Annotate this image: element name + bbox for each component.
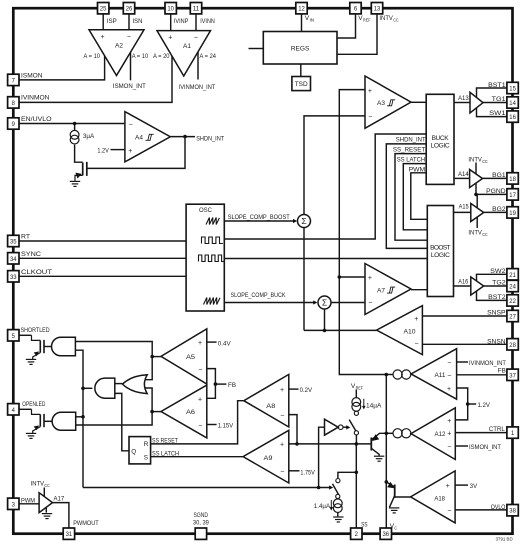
svg-text:−: − [447, 373, 451, 380]
ground 1.4uA [333, 517, 343, 522]
wire switch1 to SS node [355, 435, 357, 444]
transistor Q1 emitter to VC [371, 433, 386, 440]
pin 21 (right) [507, 269, 518, 280]
wire SHORTLED pin5 to mosfet [19, 334, 32, 336]
comparator A4 EN/UVLO [125, 112, 170, 162]
svg-text:A10: A10 [404, 328, 416, 335]
svg-text:ISMON_INT: ISMON_INT [113, 83, 146, 90]
wire ISP pin25 to A2 + [102, 14, 104, 31]
svg-text:SNSN: SNSN [487, 339, 506, 346]
op-amp A1 input current sense [157, 31, 211, 76]
svg-text:CC: CC [44, 483, 50, 488]
amp A10 current sense [377, 306, 423, 355]
svg-text:INTV: INTV [31, 480, 45, 487]
wire A14 bottom to PGND [475, 183, 477, 194]
svg-text:16: 16 [509, 114, 516, 121]
block BUCK LOGIC [426, 94, 454, 184]
wire A5 + to 0.4V [207, 341, 217, 343]
node junction FB bracket [214, 382, 218, 386]
wire CLKOUT pin33 to OSC [19, 275, 186, 277]
wire BUCK to A14 [454, 177, 470, 179]
switch1 blade [349, 420, 356, 431]
wire A13 TG1 out [483, 102, 507, 104]
wire buck clock OSC to BUCK LOGIC [224, 134, 426, 239]
wire A4 output SHDN_INT [170, 136, 195, 138]
block OSC [186, 204, 224, 311]
summer sigma2 [318, 296, 331, 309]
label INTVCC top [379, 15, 399, 23]
arrowhead slope_comp_boost [293, 219, 297, 223]
svg-text:5: 5 [12, 333, 16, 340]
wire A14 BG1 out [483, 177, 507, 179]
svg-text:TG2: TG2 [492, 280, 506, 287]
wire and1 out to mosfet gate [44, 346, 52, 348]
wire and3 in1 [76, 416, 83, 418]
wire A6 out rail [76, 388, 152, 425]
pin 7 (left) [8, 74, 19, 85]
wire PGND pin17 [476, 193, 507, 195]
wire sigma2 stub down [324, 309, 326, 331]
svg-text:A5: A5 [186, 354, 195, 361]
svg-text:SLOPE_COMP_BOOST: SLOPE_COMP_BOOST [228, 214, 290, 221]
svg-text:Σ: Σ [301, 216, 306, 226]
ground A17 [42, 514, 52, 519]
comparator A9 [243, 430, 289, 483]
label VREF [358, 15, 370, 23]
switch1 contact top [354, 411, 358, 415]
svg-text:11: 11 [193, 6, 200, 13]
svg-text:31: 31 [66, 531, 73, 538]
svg-text:LOGIC: LOGIC [431, 142, 450, 149]
svg-text:15: 15 [509, 86, 516, 93]
svg-text:OPENLED: OPENLED [22, 401, 45, 408]
wire SNSP pin27 to A10 + [422, 315, 507, 317]
svg-text:IN: IN [310, 18, 315, 23]
gm symbol A12 [393, 429, 411, 438]
svg-text:−: − [368, 114, 372, 121]
wire A13 SW1 rail [477, 108, 507, 117]
svg-text:35: 35 [10, 239, 17, 246]
wire 3uA to mosfet drain [75, 145, 83, 163]
osc square buck [202, 237, 223, 244]
svg-text:SS LATCH: SS LATCH [397, 157, 426, 164]
transistor Q2 collector to gnd [389, 496, 394, 508]
pin SGND 30,39 (bottom) [195, 528, 206, 539]
wire A17 to gnd [45, 507, 47, 512]
error amp A11 [411, 349, 457, 400]
wire 3V to A18 + [455, 484, 468, 486]
wire A16 SW2 rail [477, 274, 507, 281]
svg-text:0.2V: 0.2V [300, 387, 313, 394]
wire A8 + to 0.2V [289, 388, 299, 390]
svg-text:INTV: INTV [468, 156, 482, 163]
wire SS LATCH into BUCK and BOOST logic [403, 164, 427, 230]
svg-text:REF: REF [356, 386, 364, 391]
arrow 14uA [362, 399, 366, 410]
node junction fault rail and2 [81, 387, 85, 391]
svg-text:SHDN_INT: SHDN_INT [196, 136, 224, 143]
svg-text:A18: A18 [434, 495, 445, 502]
transistor Q2 emitter arrow [387, 482, 394, 489]
pin 37 (right) [507, 369, 518, 380]
svg-text:0.4V: 0.4V [218, 340, 231, 347]
wire INTVCC pin13 to REGS [337, 14, 377, 55]
wire A18 out to clamp transistor [395, 496, 411, 498]
transistor Q2 bar [394, 485, 396, 498]
svg-text:+: + [101, 34, 105, 41]
comparator A3 buck PWM [365, 76, 411, 128]
svg-text:INTV: INTV [379, 15, 393, 22]
label VIN [305, 15, 314, 23]
pin 5 (left) [8, 330, 19, 341]
svg-text:−: − [194, 34, 198, 41]
svg-text:ISMON_INT: ISMON_INT [469, 444, 501, 451]
block REGS [263, 32, 337, 65]
wire BOOST to A16 [454, 285, 471, 287]
wire OPENLED pin4 to mosfet [19, 408, 32, 410]
svg-text:+: + [414, 316, 418, 323]
wire and1 in1 from A5 out [75, 342, 152, 380]
wire SYNC pin34 to OSC [19, 257, 186, 259]
svg-text:17: 17 [509, 192, 516, 199]
flip-flop SS latch [129, 437, 151, 464]
wire A9 - to 1.75V [289, 470, 300, 472]
comparator A5 [161, 329, 207, 384]
svg-text:A15: A15 [459, 204, 469, 211]
switch1 contact bottom [354, 431, 358, 435]
svg-text:4: 4 [12, 407, 16, 414]
svg-text:+: + [280, 441, 284, 448]
node junction inverter rail [317, 486, 321, 490]
svg-text:27: 27 [509, 314, 516, 321]
svg-text:A1: A1 [183, 43, 191, 50]
node junction VC A12 [385, 432, 389, 436]
svg-text:OSC: OSC [199, 207, 212, 214]
svg-text:+: + [168, 35, 172, 42]
svg-text:3V: 3V [470, 483, 478, 490]
block TSD [292, 77, 311, 91]
wire BUCK to A13 [454, 102, 470, 104]
svg-text:FB: FB [498, 368, 507, 375]
wire 14uA to switch1 [355, 411, 357, 413]
wire SS node [289, 443, 372, 445]
svg-text:22: 22 [509, 298, 516, 305]
svg-text:CC: CC [482, 232, 488, 237]
svg-text:+: + [198, 340, 202, 347]
wire A4 feedback to mosfet gate [87, 137, 185, 169]
svg-text:IVINMON_INT: IVINMON_INT [469, 360, 506, 367]
osc square boost [199, 255, 225, 262]
wire boost clock OSC to BOOST LOGIC [224, 258, 427, 260]
svg-text:25: 25 [100, 6, 107, 13]
pin 24 (right) [507, 280, 518, 291]
wire A7 + input tap [339, 276, 365, 278]
svg-text:30, 39: 30, 39 [193, 520, 209, 527]
and gate openled [52, 412, 76, 430]
pin 13 (top) [371, 3, 382, 14]
pin 1 (right) [507, 427, 518, 438]
ground Q1 [374, 456, 384, 461]
driver A16 [471, 277, 484, 295]
svg-text:A8: A8 [266, 403, 275, 410]
wire VREF stub [355, 390, 357, 398]
wire SS rail to switch2 [338, 472, 356, 478]
wire A7 out to BOOST LOGIC [411, 289, 427, 291]
svg-text:37: 37 [509, 372, 516, 379]
svg-text:−: − [129, 122, 133, 129]
comparator A7 boost PWM [365, 264, 411, 315]
svg-text:A7: A7 [377, 287, 385, 294]
wire A10 output horizontal [304, 329, 377, 331]
driver A14 [470, 170, 483, 188]
buffer A17 PWM [39, 493, 52, 513]
wire ISN pin26 to A2 - [128, 14, 130, 31]
ground Q2 [389, 508, 399, 513]
switch2 contact top [336, 479, 340, 483]
current source 1.4uA [333, 499, 342, 513]
svg-text:SS LATCH: SS LATCH [152, 451, 179, 458]
wire 1.2V to A4 + [111, 149, 125, 151]
driver A15 [471, 203, 484, 221]
svg-text:19: 19 [509, 210, 516, 217]
arrowhead slope_comp_buck [313, 300, 317, 304]
node junction VC A11 [385, 373, 389, 377]
pin 34 (left) [8, 253, 19, 264]
svg-text:ISP: ISP [107, 18, 117, 25]
svg-text:3791 BD: 3791 BD [496, 537, 513, 542]
summer sigma1 [298, 215, 311, 228]
wire A15 BG2 out [484, 211, 507, 213]
svg-text:IVINMON: IVINMON [21, 95, 50, 102]
wire A2 right tap to ISMON_INT [130, 52, 132, 80]
wire SS rail [355, 444, 357, 528]
svg-text:−: − [198, 422, 202, 429]
svg-text:1.2V: 1.2V [478, 402, 491, 409]
gm symbol A11 [393, 370, 411, 379]
pin 6 (top) [350, 3, 361, 14]
or gate fault [123, 375, 148, 394]
wire or out to and2 [115, 383, 123, 385]
svg-text:REF: REF [363, 18, 371, 23]
wire SNSN pin28 to A10 - [422, 343, 507, 345]
svg-text:8: 8 [12, 100, 16, 107]
transistor Q1 bar [370, 438, 372, 451]
svg-text:1.75V: 1.75V [300, 469, 315, 476]
comparator A18 OVLO [411, 471, 456, 523]
pin 38 (right) [507, 505, 518, 516]
node junction fault rail and3 [81, 415, 85, 419]
wire CTRL pin1 to A12 [455, 432, 507, 434]
svg-text:−: − [415, 340, 419, 347]
pin 14 (right) [507, 97, 518, 108]
wire A9 out to S [151, 456, 244, 458]
and gate shortled [52, 337, 76, 356]
svg-text:BOOST: BOOST [430, 245, 451, 252]
svg-text:+: + [368, 275, 372, 282]
svg-text:14: 14 [509, 100, 516, 107]
svg-text:INTV: INTV [468, 230, 482, 237]
pin 31 (bottom) [63, 528, 74, 539]
pin 4 (left) [8, 404, 19, 415]
svg-text:10: 10 [167, 6, 174, 13]
svg-text:13: 13 [374, 6, 381, 13]
svg-text:SHDN_INT: SHDN_INT [396, 137, 426, 144]
wire ISMON_INT to A12 [455, 445, 468, 447]
svg-text:IVINP: IVINP [174, 18, 189, 25]
svg-text:A6: A6 [186, 409, 195, 416]
svg-text:A = 10: A = 10 [132, 53, 149, 60]
wire A2 left tap to ISMON pin7 [19, 56, 105, 80]
svg-text:Σ: Σ [322, 298, 327, 308]
glyph hysteresis A7 [387, 287, 395, 293]
wire and2 out to rail [83, 387, 92, 389]
svg-text:1.4µA: 1.4µA [314, 503, 331, 510]
svg-text:7: 7 [12, 77, 16, 84]
wire A12 gm out to VC [386, 432, 393, 434]
and gate fault [95, 378, 115, 398]
svg-text:+: + [447, 431, 451, 438]
wire SS_RESET into BUCK and BOOST logic [395, 154, 427, 241]
wire SHDN_INT into BUCK and BOOST logic [386, 144, 427, 249]
pin 2 (bottom) [351, 528, 362, 539]
svg-text:+: + [198, 396, 202, 403]
comparator A6 [161, 385, 207, 438]
svg-text:A = 24: A = 24 [200, 53, 217, 60]
pin 11 (top) [190, 3, 201, 14]
svg-text:+: + [280, 387, 284, 394]
svg-text:−: − [280, 469, 284, 476]
svg-text:+: + [447, 418, 451, 425]
wire 3uA branch [74, 124, 76, 131]
svg-text:A13: A13 [458, 95, 469, 102]
svg-text:SLOPE_COMP_BUCK: SLOPE_COMP_BUCK [231, 292, 287, 299]
label VC pin [390, 523, 398, 531]
wire A10 output to sigma chain [303, 227, 305, 330]
nmos OPENLED [32, 409, 45, 433]
node junction EN/UVLO 3uA [73, 122, 77, 126]
wire A16 BST2 rail [477, 291, 507, 301]
node junction SHDN_INT [183, 135, 187, 139]
svg-text:14µA: 14µA [366, 403, 382, 410]
svg-text:SS RESET: SS RESET [152, 437, 178, 444]
wire FB stub [215, 383, 226, 385]
wire VREF pin6 to REGS [337, 14, 356, 38]
svg-text:18: 18 [509, 176, 516, 183]
arrowhead switch2 control [329, 485, 333, 489]
svg-text:A9: A9 [264, 455, 273, 462]
wire A6 - to 1.15V [207, 424, 217, 426]
glyph hysteresis A3 [387, 100, 395, 106]
osc sawtooth buck [204, 298, 221, 305]
pin 16 (right) [507, 111, 518, 122]
svg-text:BST1: BST1 [488, 82, 506, 89]
svg-text:9: 9 [12, 121, 16, 128]
glyph hysteresis A4 [146, 134, 154, 140]
svg-text:SNSP: SNSP [487, 310, 506, 317]
pin 28 (right) [507, 339, 518, 350]
wire SHDN_INT to REGS [249, 48, 264, 50]
current source 14uA [352, 398, 361, 412]
pin 22 (right) [507, 295, 518, 306]
svg-text:1.15V: 1.15V [218, 423, 234, 430]
svg-text:−: − [280, 412, 284, 419]
wire A15 bottom to INTVCC [476, 217, 478, 229]
wire VC rail [385, 375, 387, 529]
transistor Q1 collector to gnd [371, 448, 379, 455]
wire A5 out horizontal [152, 356, 161, 358]
svg-text:28: 28 [509, 342, 516, 349]
node junction VC clamp [385, 480, 389, 484]
error amp A12 [411, 408, 455, 460]
wire PGND to A15 top [476, 194, 478, 208]
svg-text:−: − [198, 366, 202, 373]
svg-text:A4: A4 [135, 134, 143, 141]
wire 1.4uA to gnd [337, 513, 339, 517]
svg-text:A12: A12 [435, 431, 446, 438]
node junction A6 out [150, 410, 154, 414]
svg-text:PWM: PWM [21, 497, 35, 504]
svg-text:−: − [127, 34, 131, 41]
pin 15 (right) [507, 82, 518, 93]
wire A1 right tap to IVINMON_INT [197, 52, 199, 80]
wire INTVCC to A14 top [475, 163, 477, 175]
arrow 1.4uA [330, 500, 334, 511]
svg-text:Q: Q [131, 449, 136, 456]
svg-text:S: S [144, 454, 148, 461]
svg-text:1.2V: 1.2V [97, 147, 109, 154]
wire A17 out to PWMOUT pin31 [53, 503, 69, 529]
svg-text:EN/UVLO: EN/UVLO [21, 116, 52, 123]
transistor Q2 emitter to VC [386, 482, 394, 487]
wire RT pin35 to OSC [19, 240, 186, 242]
svg-text:A2: A2 [115, 42, 123, 49]
wire A1 left tap to IVINMON pin8 [19, 56, 172, 103]
svg-text:26: 26 [126, 6, 133, 13]
svg-text:IVINMON_INT: IVINMON_INT [179, 84, 216, 91]
svg-text:A11: A11 [435, 372, 446, 379]
driver A13 [470, 92, 483, 113]
wire inverter out to switch1 [343, 426, 348, 428]
wire A11 gm out to VC [386, 374, 393, 376]
svg-text:CC: CC [393, 18, 399, 23]
node junction A8- SS node [295, 442, 299, 446]
svg-text:SS: SS [361, 522, 368, 529]
wire sigma2 out to A7 - [331, 302, 365, 304]
svg-text:24: 24 [509, 284, 516, 291]
svg-text:SHORTLED: SHORTLED [21, 327, 50, 334]
svg-text:BG1: BG1 [492, 172, 506, 179]
pin 12 (top) [296, 3, 307, 14]
wire EN/UVLO pin9 to A4 - [19, 123, 125, 125]
wire VC rail to A3 + input [339, 90, 386, 375]
node junction sigma2/A10 [323, 329, 327, 333]
pin 27 (right) [507, 310, 518, 321]
pin 35 (left) [8, 235, 19, 246]
osc sawtooth boost [206, 218, 219, 225]
node junction A5 out [150, 355, 154, 359]
svg-text:38: 38 [509, 508, 516, 515]
wire A13 BST1 rail [477, 88, 507, 98]
wire INTVCC to A17 [43, 488, 45, 497]
svg-text:3: 3 [12, 501, 16, 508]
wire PWM into BUCK and BOOST logic [411, 173, 428, 220]
svg-text:FB: FB [228, 382, 237, 389]
svg-text:−: − [447, 360, 451, 367]
wire SLOPE_COMP_BOOST to sigma1 [224, 220, 295, 222]
comparator A8 [244, 374, 289, 427]
switch2 contact bottom [336, 494, 340, 498]
pin 33 (left) [8, 271, 19, 282]
